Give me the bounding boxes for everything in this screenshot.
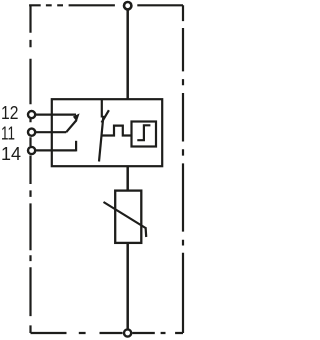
terminal 12 circle: [28, 111, 35, 118]
step symbol inside signal box: [137, 125, 150, 140]
wire terminal 14 to contact box: [35, 149, 76, 151]
svg-text:11: 11: [1, 122, 15, 143]
varistor diagonal: [104, 202, 146, 228]
wire terminal 12 to contact box: [35, 113, 76, 115]
blade arrowhead: [73, 113, 80, 121]
mechanical linkage (bump) to signal box: [101, 126, 131, 136]
enclosure right border (dash-dot): [182, 5, 184, 333]
signal output box: [132, 122, 157, 147]
relay / signalling contact box: [52, 99, 162, 166]
terminal 14 circle: [28, 147, 35, 154]
terminal circle bottom (line output node): [124, 329, 131, 336]
terminal 11 circle: [28, 129, 35, 136]
svg-text:12: 12: [1, 102, 18, 123]
wire (top terminal to disconnector box): [126, 10, 129, 100]
svg-text:14: 14: [1, 143, 21, 164]
varistor body: [115, 191, 141, 243]
changeover contact blade (11 to 12, NC): [66, 120, 76, 132]
wire (contact box to varistor): [126, 166, 129, 190]
wire terminal 11 to contact box: [35, 131, 66, 133]
thermal disconnector tick: [102, 110, 109, 122]
wire (varistor to bottom terminal): [126, 243, 129, 329]
terminal circle top (line input node): [124, 2, 131, 9]
enclosure top border (dash-dot): [29, 4, 183, 6]
thermal disconnector fixed lead: [101, 99, 103, 117]
enclosure left border (dash-dot): [29, 5, 31, 333]
contact 14 stub: [75, 141, 77, 152]
disconnector blade: [99, 116, 103, 162]
varistor diagonal tail: [145, 227, 148, 237]
enclosure bottom border (dash-dot): [31, 332, 184, 334]
